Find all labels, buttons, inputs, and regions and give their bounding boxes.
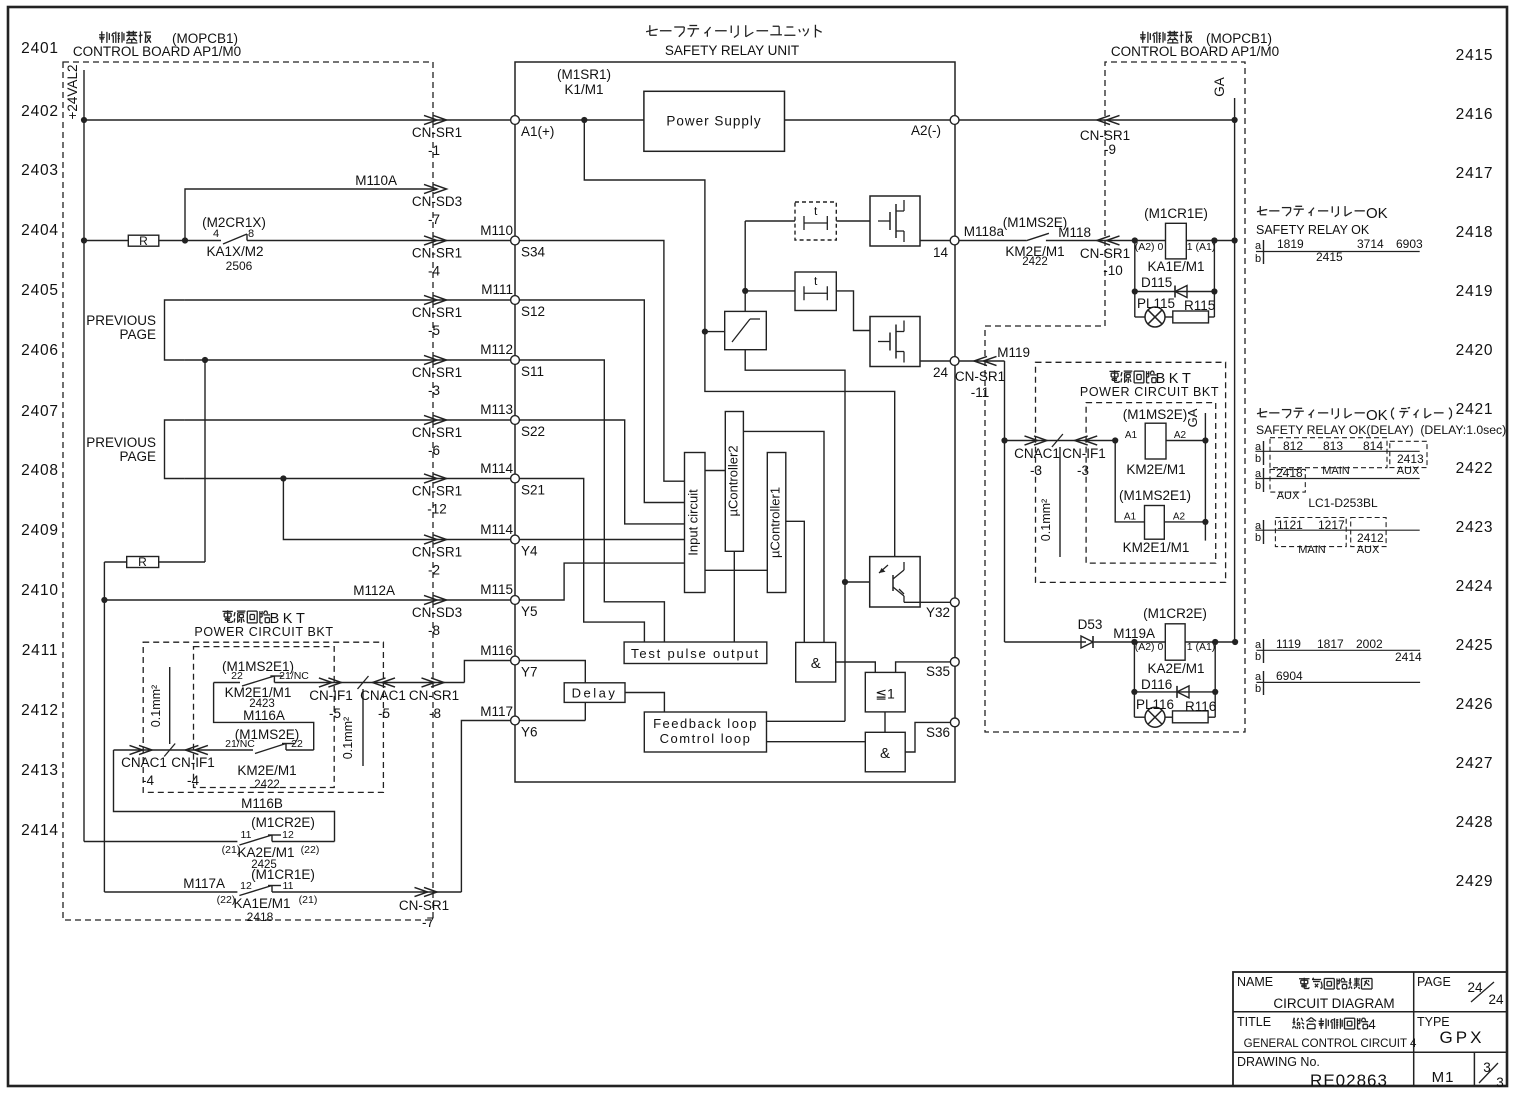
svg-text:AUX: AUX <box>1277 490 1300 502</box>
junction switch feed <box>702 329 708 335</box>
title block col line <box>1413 972 1415 1086</box>
svg-text:6903: 6903 <box>1396 237 1423 251</box>
svg-text:2426: 2426 <box>1456 696 1494 713</box>
svg-text:2418: 2418 <box>1456 224 1494 241</box>
node terminal 24 <box>950 357 959 366</box>
svg-text:R: R <box>138 555 147 569</box>
junction D116 r <box>1212 689 1218 695</box>
header セーフティーリレーユニット <box>646 30 655 32</box>
junction M119 bkt tap <box>1001 437 1007 443</box>
connector CN-SR1-4 <box>424 236 437 245</box>
svg-text:KM2E/M1: KM2E/M1 <box>237 763 296 778</box>
svg-text:24: 24 <box>933 365 949 380</box>
wire KA1E row <box>1135 240 1166 242</box>
contact KA1E/M1 (M1CR1E) <box>239 886 272 896</box>
xref aux box 2422 <box>1270 469 1305 492</box>
svg-text:2406: 2406 <box>21 342 59 359</box>
svg-text:a: a <box>1255 639 1262 651</box>
svg-text:PAGE: PAGE <box>119 327 156 342</box>
wire M119 row <box>959 360 1005 362</box>
connector CN-SR1-12 <box>424 474 437 483</box>
svg-text:CNAC1: CNAC1 <box>360 688 406 703</box>
svg-text:2413: 2413 <box>21 762 59 779</box>
svg-text:CN-IF1: CN-IF1 <box>1062 446 1106 461</box>
svg-text:11: 11 <box>241 829 252 841</box>
svg-text:-3: -3 <box>428 383 440 398</box>
wire switch to feedback riser <box>745 350 845 722</box>
svg-text:(A2) 0: (A2) 0 <box>1135 241 1164 253</box>
wire KM2E1 row left <box>214 682 240 684</box>
node S22 <box>511 416 520 425</box>
svg-text:-4: -4 <box>187 773 199 788</box>
svg-text:CNAC1: CNAC1 <box>121 755 167 770</box>
switch S (test) <box>725 311 767 349</box>
wire input-uC1 link <box>705 569 767 571</box>
node +24VAL2 bus <box>83 70 85 842</box>
svg-text:2427: 2427 <box>1456 755 1494 772</box>
junction M112 tap <box>202 357 208 363</box>
svg-text:4: 4 <box>213 228 219 240</box>
svg-text:(22): (22) <box>301 844 320 856</box>
svg-text:-4: -4 <box>428 264 440 279</box>
svg-text:TYPE: TYPE <box>1417 1015 1450 1029</box>
svg-text:a: a <box>1255 240 1262 252</box>
wire KM2E row left <box>114 749 254 751</box>
svg-text:A2: A2 <box>1173 512 1186 523</box>
wire S12 to input <box>520 300 685 503</box>
uController2 box <box>725 412 743 552</box>
svg-text:3714: 3714 <box>1357 237 1384 251</box>
svg-text:SAFETY RELAY UNIT: SAFETY RELAY UNIT <box>665 43 799 58</box>
svg-text:GA: GA <box>1212 77 1227 97</box>
header 制御基板 left <box>99 34 105 36</box>
wire Y7 to delay <box>520 661 586 683</box>
test pulse output box <box>624 642 767 664</box>
junction KM2E A1 <box>1112 437 1118 443</box>
svg-text:+24VAL2: +24VAL2 <box>65 65 80 120</box>
svg-text:Y6: Y6 <box>521 725 538 740</box>
svg-text:2417: 2417 <box>1456 165 1494 182</box>
svg-text:CONTROL BOARD AP1/M0: CONTROL BOARD AP1/M0 <box>73 44 241 59</box>
resistor R (2409) <box>127 557 159 568</box>
previous-page bracket 1 <box>165 300 185 360</box>
svg-text:M119: M119 <box>997 345 1030 360</box>
wire KA2E row <box>84 841 237 843</box>
diode D115 <box>1135 291 1215 293</box>
svg-text:-7: -7 <box>422 915 434 930</box>
relay coil KA2E/M1 (M1CR2E) <box>1165 624 1185 660</box>
wire KA2E row right <box>1185 641 1235 643</box>
junction M110A tap <box>182 237 188 243</box>
svg-text:CN-SR1: CN-SR1 <box>1080 246 1130 261</box>
svg-text:M113: M113 <box>480 402 513 417</box>
junction A1 branch <box>581 117 587 123</box>
node S36 <box>950 718 959 727</box>
svg-text:2416: 2416 <box>1456 106 1494 123</box>
control board MOPCB1 left dashed box <box>63 62 433 920</box>
svg-text:Comtrol loop: Comtrol loop <box>660 731 752 746</box>
svg-text:AUX: AUX <box>1397 465 1420 477</box>
svg-text:M116B: M116B <box>241 796 283 811</box>
wire delay to Y6 <box>584 702 586 720</box>
svg-text:-5: -5 <box>428 323 440 338</box>
svg-text:-8: -8 <box>429 706 441 721</box>
connector CNAC1-3 <box>1025 436 1038 445</box>
svg-text:A2(-): A2(-) <box>911 123 941 138</box>
uController1 box <box>767 453 786 593</box>
title block row line 2 <box>1233 1051 1507 1053</box>
wire opto feed <box>845 581 870 583</box>
or gate G2 (<=1) <box>865 672 905 712</box>
svg-text:6904: 6904 <box>1276 669 1303 683</box>
svg-text:R: R <box>139 234 148 248</box>
junction bus 2402 <box>81 117 87 123</box>
svg-text:KA2E/M1: KA2E/M1 <box>237 845 294 860</box>
svg-text:Feedback loop: Feedback loop <box>653 716 758 731</box>
connector CN-SR1-6 <box>424 415 437 424</box>
connector CN-SD3-7 <box>424 184 437 193</box>
svg-text:&: & <box>811 655 821 672</box>
wire KM2E coil row <box>1005 440 1116 442</box>
node Y5 <box>511 596 520 605</box>
svg-text:2403: 2403 <box>21 162 59 179</box>
svg-text:D53: D53 <box>1078 617 1103 632</box>
svg-text:Power Supply: Power Supply <box>666 114 761 129</box>
node GA bus <box>1234 98 1236 642</box>
svg-text:(M1CR2E): (M1CR2E) <box>251 815 315 830</box>
svg-text:MAIN: MAIN <box>1298 544 1326 556</box>
junction GA M118 <box>1232 237 1238 243</box>
svg-text:MAIN: MAIN <box>1322 465 1350 477</box>
svg-text:&: & <box>880 745 890 762</box>
svg-text:-11: -11 <box>971 385 990 400</box>
svg-text:2418: 2418 <box>247 910 274 924</box>
wire PS to A2 <box>785 119 951 121</box>
wire uC1 out <box>786 521 805 642</box>
svg-text:2408: 2408 <box>21 462 59 479</box>
wire uC2 out <box>743 431 824 642</box>
svg-text:CN-SD3: CN-SD3 <box>412 194 462 209</box>
timer T2 <box>795 272 836 311</box>
svg-text:b: b <box>1255 253 1261 265</box>
wire M116 jog to Y7 <box>464 661 510 683</box>
feedback loop box <box>644 712 766 752</box>
svg-text:-5: -5 <box>378 706 390 721</box>
svg-text:A2: A2 <box>1174 430 1187 441</box>
svg-text:2415: 2415 <box>1316 250 1343 264</box>
node A2(-) <box>950 116 959 125</box>
node S11 <box>511 356 520 365</box>
safety relay unit box U1 <box>515 62 955 782</box>
svg-text:CN-SR1: CN-SR1 <box>412 365 462 380</box>
wire Y5 to input <box>520 563 685 600</box>
svg-text:KA1E/M1: KA1E/M1 <box>1147 259 1204 274</box>
svg-text:2414: 2414 <box>1395 650 1422 664</box>
node S35 <box>950 658 959 667</box>
connector CN-SR1-7 <box>415 887 428 896</box>
connector CN-SD3-8 <box>424 595 437 604</box>
svg-text:2420: 2420 <box>1456 342 1494 359</box>
svg-text:M1: M1 <box>1432 1069 1455 1086</box>
wire KA1E right leg <box>1213 241 1215 318</box>
junction M114 tap <box>280 475 286 481</box>
connector CNAC1-5 <box>382 678 395 687</box>
wire G2 to G3 <box>884 712 886 732</box>
svg-text:2410: 2410 <box>21 582 59 599</box>
junction opto feed <box>842 579 848 585</box>
svg-text:KA1E/M1: KA1E/M1 <box>233 896 290 911</box>
svg-text:M119A: M119A <box>1113 626 1155 641</box>
previous-page bracket 2 <box>165 420 185 479</box>
svg-text:M118: M118 <box>1058 225 1091 240</box>
header 電源回路BKT left <box>222 610 232 612</box>
svg-text:DRAWING No.: DRAWING No. <box>1237 1055 1320 1069</box>
svg-text:2425: 2425 <box>1456 637 1494 654</box>
svg-text:PAGE: PAGE <box>119 449 156 464</box>
svg-text:14: 14 <box>933 245 949 260</box>
svg-text:2407: 2407 <box>21 403 59 420</box>
wire M113 <box>185 419 511 421</box>
svg-text:2411: 2411 <box>22 642 59 659</box>
svg-text:CNAC1: CNAC1 <box>1014 446 1060 461</box>
wire S35 to G2 <box>896 662 951 673</box>
relay coil KM2E1/M1 (M1MS2E1) <box>1145 506 1165 540</box>
header 電源回路BKT right <box>1109 370 1119 372</box>
svg-text:2415: 2415 <box>1456 47 1494 64</box>
power circuit BKT inner dashed box right <box>1086 403 1216 563</box>
svg-text:2409: 2409 <box>21 522 59 539</box>
wire M117 riser to Y6 <box>461 721 510 893</box>
svg-text:CONTROL BOARD AP1/M0: CONTROL BOARD AP1/M0 <box>1111 44 1279 59</box>
wire A2 row right <box>959 119 1235 121</box>
svg-text:µController1: µController1 <box>768 487 783 558</box>
wire M119 drop <box>1004 361 1006 642</box>
wire 2404 right <box>247 240 511 242</box>
svg-text:M116A: M116A <box>243 708 285 723</box>
junction D115 l <box>1132 288 1138 294</box>
svg-text:12: 12 <box>282 829 294 841</box>
connector CN-SR1-2 <box>424 535 437 544</box>
transistor Q2 (IGBT) <box>870 317 920 367</box>
svg-text:2422: 2422 <box>1022 256 1048 268</box>
connector CNAC1-4 <box>130 745 143 754</box>
svg-text:POWER CIRCUIT BKT: POWER CIRCUIT BKT <box>194 625 333 639</box>
wire 2404 left <box>84 240 128 242</box>
junction GA top <box>1232 117 1238 123</box>
svg-text:a: a <box>1255 671 1262 683</box>
svg-text:8: 8 <box>248 228 254 240</box>
svg-text:PL115: PL115 <box>1137 296 1175 311</box>
title block frame <box>1233 972 1507 1086</box>
svg-text:RE02863: RE02863 <box>1310 1071 1388 1090</box>
svg-text:D115: D115 <box>1141 275 1172 290</box>
wire Q1 out to 14 <box>920 240 950 242</box>
svg-text:22: 22 <box>291 738 303 750</box>
svg-text:2419: 2419 <box>1456 283 1494 300</box>
wire KM2E row right <box>286 749 314 751</box>
wire M111 <box>185 299 511 301</box>
wire M114 <box>185 478 511 480</box>
connector CN-SR1-5 <box>424 295 437 304</box>
svg-text:1819: 1819 <box>1277 237 1304 251</box>
wire M114 to Y4 <box>283 479 510 540</box>
svg-text:GPX: GPX <box>1440 1028 1485 1047</box>
wire M112 drop to R <box>204 360 206 562</box>
svg-text:1 (A1): 1 (A1) <box>1187 241 1216 253</box>
svg-text:A1: A1 <box>1124 512 1137 523</box>
connector CN-IF1-5 <box>319 678 332 687</box>
node GA2 bus <box>1204 413 1206 541</box>
svg-text:(M1CR2E): (M1CR2E) <box>1143 606 1207 621</box>
wire KA2E left leg <box>1133 642 1135 717</box>
resistor R115 <box>1165 316 1173 318</box>
wire M112 <box>185 359 511 361</box>
svg-text:KA1X/M2: KA1X/M2 <box>206 244 263 259</box>
header 制御基板 right <box>1140 34 1146 36</box>
svg-text:LC1-D253BL: LC1-D253BL <box>1308 496 1378 510</box>
wire Y4 to input <box>520 539 685 541</box>
svg-text:M118a: M118a <box>964 224 1005 239</box>
power circuit BKT outer dashed box left <box>143 642 383 792</box>
title block col line 2 <box>1473 1052 1475 1086</box>
power circuit BKT outer dashed box right <box>1036 362 1226 582</box>
svg-text:CN-SR1: CN-SR1 <box>412 246 462 261</box>
wire 2404 mid <box>159 240 221 242</box>
node Y4 <box>511 535 520 544</box>
svg-text:Y4: Y4 <box>521 544 538 559</box>
svg-text:b: b <box>1255 683 1261 695</box>
junction KA1E right <box>1211 237 1217 243</box>
wire M110A <box>185 189 437 241</box>
svg-text:2506: 2506 <box>226 259 253 273</box>
gauge marker 0.1mm2 b <box>358 676 369 689</box>
connector CN-IF1-3 <box>1084 436 1097 445</box>
svg-text:S35: S35 <box>926 664 950 679</box>
svg-text:Y5: Y5 <box>521 604 538 619</box>
svg-text:2405: 2405 <box>21 282 59 299</box>
svg-text:PL116: PL116 <box>1136 697 1174 712</box>
svg-text:21/NC: 21/NC <box>279 670 309 682</box>
svg-text:-5: -5 <box>329 706 341 721</box>
power circuit BKT inner dashed box left <box>194 647 335 788</box>
svg-text:2414: 2414 <box>21 822 59 839</box>
relay coil KM2E/M1 (M1MS2E) <box>1145 423 1166 459</box>
junction D115 r <box>1211 288 1217 294</box>
svg-text:2401: 2401 <box>21 40 59 57</box>
wire R to KA1E riser <box>104 561 126 563</box>
junction GA KA2E <box>1232 639 1238 645</box>
svg-text:S36: S36 <box>926 725 950 740</box>
node Y6 <box>511 716 520 725</box>
input circuit box <box>685 453 706 593</box>
svg-text:CN-SR1: CN-SR1 <box>399 898 449 913</box>
svg-text:(M1CR1E): (M1CR1E) <box>1144 206 1208 221</box>
node S21 <box>511 474 520 483</box>
svg-text:2412: 2412 <box>1357 531 1384 545</box>
diode D53 <box>1081 636 1093 648</box>
diode D116 <box>1134 691 1215 693</box>
svg-text:Y7: Y7 <box>521 665 538 680</box>
power supply U2 <box>644 91 785 151</box>
svg-text:2402: 2402 <box>21 103 59 120</box>
lamp PL115 <box>1135 316 1145 318</box>
svg-text:2404: 2404 <box>21 222 59 239</box>
wire KA1E row <box>104 891 237 893</box>
wire T1 to Q1 <box>836 220 870 222</box>
svg-text:K1/M1: K1/M1 <box>564 82 603 97</box>
svg-text:4: 4 <box>1368 1017 1376 1032</box>
lamp PL116 <box>1134 716 1145 718</box>
wire Q2 out to 24 <box>920 360 950 362</box>
junction GA2 KM2E1 <box>1202 519 1208 525</box>
wire M119A row mid <box>1094 641 1165 643</box>
wire S11 path <box>520 360 665 642</box>
xref main box 2423 <box>1275 518 1346 547</box>
svg-text:Y32: Y32 <box>926 605 950 620</box>
svg-text:Input circuit: Input circuit <box>686 489 701 556</box>
svg-text:M115: M115 <box>480 582 513 597</box>
svg-text:≦1: ≦1 <box>875 686 895 702</box>
svg-text:A1: A1 <box>1125 430 1138 441</box>
svg-text:CN-IF1: CN-IF1 <box>171 755 215 770</box>
svg-text:1817: 1817 <box>1317 637 1344 651</box>
node Y32 <box>950 598 959 607</box>
junction GA2 KM2E <box>1202 437 1208 443</box>
wire timer riser <box>744 221 746 311</box>
svg-text:M110A: M110A <box>355 173 397 188</box>
contact KA2E/M1 (M1CR2E) <box>239 835 272 845</box>
and gate G3 <box>865 732 905 772</box>
connector CN-SR1-1 <box>424 115 437 124</box>
wire M116B <box>114 750 335 842</box>
junction KA2E right <box>1212 639 1218 645</box>
contact KM2E1/M1 (M1MS2E1) <box>242 676 274 686</box>
svg-text:PAGE: PAGE <box>1417 975 1451 989</box>
svg-text:2422: 2422 <box>1456 460 1494 477</box>
svg-text:PREVIOUS: PREVIOUS <box>86 313 156 328</box>
svg-text:KM2E/M1: KM2E/M1 <box>1126 462 1185 477</box>
svg-text:24: 24 <box>1488 992 1504 1007</box>
transistor Q1 (IGBT) <box>870 196 920 246</box>
svg-text:b: b <box>1255 480 1261 492</box>
svg-text:(M1MS2E): (M1MS2E) <box>1123 407 1188 422</box>
svg-text:2413: 2413 <box>1397 452 1424 466</box>
svg-text:-10: -10 <box>1103 263 1123 278</box>
svg-text:R115: R115 <box>1184 298 1215 313</box>
wire feedback out1 <box>767 720 846 722</box>
svg-text:R116: R116 <box>1185 699 1216 714</box>
svg-text:M117A: M117A <box>183 876 225 891</box>
svg-text:S34: S34 <box>521 245 546 260</box>
junction D116 l <box>1131 689 1137 695</box>
connector CN-SR1-8 <box>422 678 435 687</box>
svg-text:µController2: µController2 <box>726 445 741 516</box>
svg-text:OK: OK <box>1366 205 1388 222</box>
svg-text:Delay: Delay <box>572 686 618 701</box>
svg-text:-4: -4 <box>142 773 154 788</box>
svg-text:M112: M112 <box>480 342 513 357</box>
svg-text:b: b <box>1255 453 1261 465</box>
svg-text:-3: -3 <box>1030 463 1042 478</box>
svg-text:M110: M110 <box>480 223 513 238</box>
connector CN-IF1-4 <box>195 745 208 754</box>
node Y7 <box>511 656 520 665</box>
contact KM2E/M1 aux (M1MS2E) <box>1026 233 1049 240</box>
svg-text:S12: S12 <box>521 304 545 319</box>
svg-text:2424: 2424 <box>1456 578 1494 595</box>
resistor R116 <box>1165 716 1173 718</box>
junction M112A tap <box>101 597 107 603</box>
